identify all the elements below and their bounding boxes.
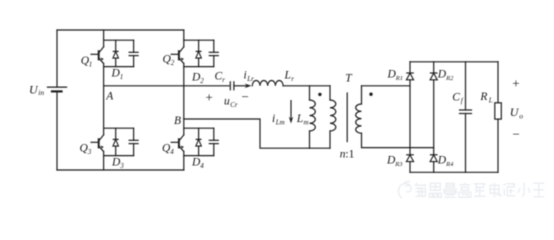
svg-text:U: U [510, 105, 520, 119]
svg-text:R2: R2 [445, 75, 454, 82]
svg-text:−: − [513, 126, 520, 141]
svg-text:2: 2 [171, 59, 175, 67]
svg-text:+: + [512, 75, 519, 90]
svg-text:o: o [519, 111, 523, 120]
svg-text:4: 4 [170, 148, 174, 156]
svg-text:B: B [174, 115, 181, 127]
svg-text:C: C [452, 91, 460, 103]
svg-text:A: A [105, 91, 114, 103]
svg-text:1: 1 [89, 61, 93, 69]
svg-text:Lr: Lr [246, 75, 254, 83]
svg-text:r: r [222, 76, 225, 84]
svg-text:R3: R3 [394, 161, 403, 168]
svg-text:3: 3 [87, 148, 92, 156]
svg-text:3: 3 [119, 162, 124, 170]
svg-text:4: 4 [200, 162, 204, 170]
svg-text:u: u [224, 95, 230, 107]
svg-text:m: m [304, 118, 309, 126]
svg-text:C: C [215, 71, 223, 83]
svg-text:r: r [291, 75, 294, 83]
svg-text:Lm: Lm [275, 119, 285, 127]
svg-text:L: L [284, 70, 291, 82]
svg-text:2: 2 [200, 77, 204, 85]
svg-text:L: L [296, 113, 303, 125]
svg-text:f: f [461, 97, 464, 105]
svg-text:T: T [345, 72, 353, 84]
svg-text:+: + [206, 90, 213, 105]
svg-text:R4: R4 [445, 161, 454, 168]
svg-text:in: in [38, 88, 44, 97]
svg-text:R1: R1 [395, 75, 403, 82]
svg-text:Cr: Cr [230, 101, 238, 109]
svg-text::1: :1 [345, 148, 354, 160]
svg-text:−: − [242, 89, 249, 104]
svg-text:L: L [488, 96, 493, 104]
svg-text:1: 1 [120, 73, 124, 81]
svg-text:R: R [479, 91, 487, 103]
